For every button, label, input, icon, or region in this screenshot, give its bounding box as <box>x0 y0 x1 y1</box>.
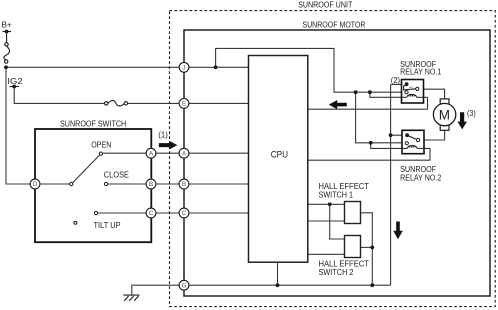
chassis ground <box>123 295 139 301</box>
wire switch pin A to unit pin A <box>151 152 184 154</box>
svg-text:(3): (3) <box>467 109 476 118</box>
fuse on IG2 line <box>105 101 128 106</box>
wire CPU to relay no.1 coil right lead <box>308 97 428 109</box>
wire switch pin C to unit pin C <box>151 212 184 214</box>
pin C sunroof unit <box>179 208 189 218</box>
svg-text:B: B <box>149 181 153 188</box>
wire fuse to pin E <box>128 102 185 104</box>
svg-text:D: D <box>33 181 38 188</box>
wire CPU to relay no.2 coil right lead <box>308 148 430 160</box>
pin D sunroof switch <box>30 179 40 189</box>
wire CLOSE contact to switch pin B <box>108 183 151 185</box>
svg-text:SWITCH 1: SWITCH 1 <box>319 191 354 200</box>
wire pin G ground bus <box>184 284 391 286</box>
svg-text:IG2: IG2 <box>7 77 23 86</box>
svg-text:B: B <box>182 181 186 188</box>
wire branch to relay no.1 coil left lead <box>370 92 407 97</box>
hall effect switch 1 box <box>345 202 361 224</box>
svg-text:(2): (2) <box>391 76 401 85</box>
svg-text:SWITCH 2: SWITCH 2 <box>319 268 354 277</box>
wire OPEN contact to switch pin A <box>103 152 152 154</box>
switch wiper pivot contact <box>70 182 73 185</box>
wire CPU to hall effect switch 1 lower terminal <box>308 220 345 222</box>
wire pin C to CPU <box>184 212 249 214</box>
switch contact TILT UP <box>94 211 97 214</box>
wire ground bus to relay no.2 common <box>391 134 408 136</box>
sunroof unit dashed enclosure <box>170 11 496 307</box>
svg-text:A: A <box>182 150 187 157</box>
wire relay no.1 NO contact to motor upper brush <box>419 89 445 99</box>
svg-text:E: E <box>182 101 186 108</box>
svg-text:M: M <box>439 108 450 123</box>
wire pin E to CPU <box>184 102 249 104</box>
wire B+ feed to pin J <box>6 66 184 68</box>
svg-text:RELAY NO.1: RELAY NO.1 <box>400 68 442 77</box>
wire CPU ground lead <box>277 262 279 285</box>
pin E sunroof unit <box>179 99 189 109</box>
CPU box U1 <box>249 56 308 263</box>
switch contact CLOSE <box>104 182 107 185</box>
svg-text:A: A <box>149 150 154 157</box>
relay K2 SUNROOF RELAY NO.2 <box>402 130 424 153</box>
wire relay common ground bus down to pin G line <box>390 84 392 285</box>
wire pin B to CPU <box>184 183 249 185</box>
node relay2 feed branch <box>354 90 358 94</box>
svg-text:SUNROOF SWITCH: SUNROOF SWITCH <box>60 119 126 128</box>
pin J sunroof unit <box>179 62 189 72</box>
svg-text:SUNROOF UNIT: SUNROOF UNIT <box>298 0 352 9</box>
svg-text:(1): (1) <box>158 131 168 140</box>
svg-text:G: G <box>182 282 187 289</box>
pin G sunroof unit <box>179 280 189 290</box>
node hall switch outputs junction <box>370 246 374 250</box>
node hall output to ground bus <box>370 283 374 287</box>
relay K1 SUNROOF RELAY NO.1 <box>402 80 424 104</box>
svg-text:HALL EFFECT: HALL EFFECT <box>319 259 370 268</box>
svg-text:CLOSE: CLOSE <box>104 170 129 179</box>
wire TILT UP contact to switch pin C <box>98 212 151 214</box>
wire J-node branch over CPU to relay no.1 NC contact <box>216 48 405 92</box>
node relay2 common branch <box>389 133 393 137</box>
wire ground bus to relay no.1 common <box>391 83 407 85</box>
svg-text:J: J <box>182 65 185 72</box>
svg-text:CPU: CPU <box>271 150 288 160</box>
arrow (3) motor down direction <box>457 112 467 129</box>
motor M sunroof motor <box>433 99 455 130</box>
pin B sunroof unit <box>179 179 189 189</box>
switch aux contact <box>74 221 77 224</box>
battery terminal B+ <box>3 30 12 43</box>
node relay2 coil branch <box>369 141 373 145</box>
svg-text:B+: B+ <box>2 21 12 30</box>
wire CPU to hall effect switch 1 upper terminal <box>308 203 345 205</box>
wire pin G to chassis ground <box>132 285 184 295</box>
svg-text:SUNROOF MOTOR: SUNROOF MOTOR <box>302 21 365 30</box>
wire branch down to relay no.2 NC contact <box>356 92 405 143</box>
wire pin A to CPU <box>184 152 249 154</box>
node junction dots <box>4 65 392 287</box>
wire relay no.2 NO contact to motor lower brush <box>420 130 445 140</box>
node CPU ground junction <box>276 283 280 287</box>
wire branch to relay no.2 coil left lead <box>371 143 407 149</box>
node J branch <box>214 65 218 69</box>
wire branch to hall effect switch 2 upper terminal <box>330 204 345 239</box>
sunroof motor enclosure <box>184 30 490 296</box>
sunroof switch box <box>35 129 151 242</box>
pin B sunroof switch <box>146 179 156 189</box>
switch contact circles <box>70 152 108 224</box>
svg-text:C: C <box>182 210 187 217</box>
svg-text:TILT UP: TILT UP <box>94 221 121 230</box>
svg-text:OPEN: OPEN <box>91 140 111 149</box>
wire switch pole from D <box>38 183 70 185</box>
fusible link on B+ line <box>4 43 10 64</box>
connector pins <box>30 62 189 290</box>
svg-text:RELAY NO.2: RELAY NO.2 <box>400 173 442 182</box>
ignition terminal IG2 <box>10 85 20 89</box>
wire IG2 to fuse <box>14 87 104 104</box>
node hall switch 2 feed branch <box>328 202 332 206</box>
hall effect switch 2 box <box>345 236 361 258</box>
wire switch wiper arm in OPEN position <box>73 155 100 183</box>
wire hall effect switch 2 output <box>361 246 373 248</box>
arrow (2) close direction <box>329 100 347 109</box>
pin C sunroof switch <box>146 208 156 218</box>
node B+ junction <box>4 65 8 69</box>
wire hall effect switch 1 output down to ground bus <box>361 213 373 285</box>
pin A sunroof switch <box>146 148 156 158</box>
wire CPU to hall effect switch 2 lower terminal <box>308 253 345 255</box>
wire pin J to CPU <box>184 66 249 68</box>
arrow (1) open direction <box>159 141 178 149</box>
arrow hall effect down direction <box>393 222 403 240</box>
wire switch pin B to unit pin B <box>151 183 184 185</box>
wire B+ down to switch pin D <box>6 67 35 184</box>
switch contact OPEN <box>99 152 102 155</box>
svg-text:C: C <box>149 210 154 217</box>
pin A sunroof unit <box>179 148 189 158</box>
node relay1 coil branch <box>368 90 372 94</box>
